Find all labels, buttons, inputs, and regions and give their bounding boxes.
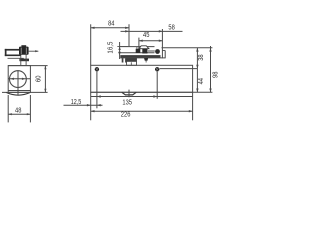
bottom extension lines bbox=[96, 72, 98, 109]
dim 38 bbox=[196, 48, 198, 69]
dim 135 line (long, through plate bottom) bbox=[91, 96, 193, 98]
dim 84 bbox=[90, 24, 92, 65]
dim 98 bbox=[210, 46, 212, 92]
arm top bar (side) bbox=[5, 49, 19, 51]
circle vertical center line bbox=[17, 70, 19, 95]
circle horizontal center line with arrows bbox=[8, 78, 30, 80]
svg-text:16,5: 16,5 bbox=[108, 42, 115, 54]
arm lower bar (side) bbox=[5, 55, 21, 57]
knuckle hat trapezoid bbox=[139, 46, 149, 49]
arm rod line to right (side) bbox=[29, 50, 39, 52]
spindle hub (side) bbox=[21, 45, 26, 47]
spindle center stub bbox=[128, 90, 130, 98]
spindle flange (side) bbox=[19, 59, 29, 62]
dim 44 bbox=[196, 69, 198, 93]
svg-text:48: 48 bbox=[15, 107, 21, 114]
screw hole 2 bbox=[155, 67, 159, 71]
svg-text:58: 58 bbox=[168, 24, 174, 31]
body bottom line extended right bbox=[91, 91, 213, 93]
svg-text:84: 84 bbox=[108, 20, 114, 27]
spindle neck lines (side) bbox=[20, 55, 22, 66]
svg-text:135: 135 bbox=[122, 100, 132, 107]
svg-text:45: 45 bbox=[143, 32, 149, 39]
elbow knob bbox=[155, 49, 160, 54]
arm top line bbox=[120, 46, 155, 48]
dim 45 bbox=[138, 38, 140, 49]
svg-text:98: 98 bbox=[213, 72, 220, 78]
dim 226 bbox=[91, 110, 193, 112]
dim 48 (side view bottom) bbox=[7, 95, 9, 122]
dim 12,5 line bbox=[64, 104, 103, 106]
arm legs left bbox=[122, 58, 124, 62]
screw hole 1 bbox=[95, 67, 99, 71]
arm mid line bbox=[118, 52, 154, 54]
lower tab bbox=[144, 58, 148, 61]
bottom line extension (side view) bbox=[2, 91, 48, 93]
rod edge line bbox=[148, 50, 155, 52]
arc bump under body (front) bbox=[122, 92, 136, 95]
piston circle bbox=[10, 71, 27, 88]
shoe line (side) bbox=[8, 57, 24, 59]
knuckle verticals bbox=[136, 47, 138, 49]
dim 58 line bbox=[121, 30, 183, 32]
top reference line bbox=[162, 47, 213, 49]
knuckle block B bbox=[142, 49, 147, 54]
knuckle block A bbox=[136, 49, 141, 53]
top line extension (side view) bbox=[8, 65, 47, 67]
arm bar bbox=[120, 55, 160, 58]
hub under arm bbox=[127, 58, 137, 65]
body rect (side view) bbox=[8, 66, 30, 93]
svg-text:226: 226 bbox=[121, 112, 131, 119]
dim 16,5 bbox=[119, 42, 121, 59]
body rect (front) bbox=[91, 65, 193, 92]
svg-text:38: 38 bbox=[198, 54, 205, 60]
body seam line near bottom (side view) bbox=[8, 90, 30, 92]
arm bottom line bbox=[120, 57, 165, 59]
svg-text:60: 60 bbox=[36, 76, 43, 82]
svg-text:12,5: 12,5 bbox=[71, 99, 82, 106]
dim 60 (side view right) bbox=[44, 66, 46, 93]
arm left post (side) bbox=[5, 49, 7, 56]
hole2 extension line right bbox=[160, 68, 198, 70]
svg-text:44: 44 bbox=[198, 78, 205, 84]
end bracket verticals bbox=[161, 29, 163, 58]
bottom arc under side body bbox=[6, 92, 30, 95]
